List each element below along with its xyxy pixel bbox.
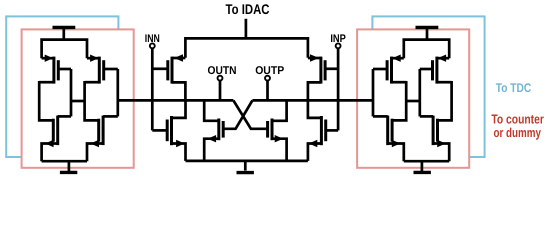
source fan rail right xyxy=(404,40,449,59)
ground stub right block xyxy=(421,161,424,171)
transistor T2 (PMOS right-top, mirrored) xyxy=(85,55,118,84)
VDD stub xyxy=(62,27,65,39)
transistor T4r (NMOS) xyxy=(373,116,404,162)
OUTN bus xyxy=(118,99,234,102)
red box (to counter) left xyxy=(22,29,134,167)
cross-coupled NMOS MN2 xyxy=(268,119,287,161)
INP terminal xyxy=(336,43,341,48)
transistor T1 (PMOS left-top, mirrored) xyxy=(39,55,71,84)
transistor T3 (NMOS left-bottom) xyxy=(42,116,71,162)
wire T2 drain to T4 gate xyxy=(85,81,99,120)
IDAC stub xyxy=(245,19,248,39)
VDD bar left block xyxy=(53,26,76,29)
OUTP stub xyxy=(266,81,269,100)
cross couple bridge wire xyxy=(71,100,85,103)
wire T1 drain to T3 gate xyxy=(39,81,53,120)
OUTN stub xyxy=(219,81,222,100)
top rail xyxy=(185,38,308,57)
INP PMOS M2 xyxy=(308,54,325,100)
OUTP terminal xyxy=(265,76,270,81)
INP gate wire xyxy=(337,49,340,131)
transistor T3r (NMOS) xyxy=(420,116,449,162)
transistor T4 (NMOS right-bottom) xyxy=(87,116,118,162)
tail bus left block xyxy=(42,160,87,163)
wire T2r gate / T4r drain vertical xyxy=(372,69,375,116)
INP NMOS M4 xyxy=(308,100,338,160)
VDD bar right block xyxy=(416,26,439,29)
transistor T2r (PMOS) xyxy=(373,55,406,84)
ground stub left block xyxy=(68,161,71,171)
ground bar right block xyxy=(414,171,431,174)
cross wire OUTP to MN1 gate xyxy=(223,100,252,128)
INN gate wire xyxy=(151,49,154,131)
tail bus right block xyxy=(404,160,449,163)
wire T1 gate / T3 drain vertical xyxy=(70,69,73,116)
svg-text:To IDAC: To IDAC xyxy=(226,1,270,17)
transistor T1r (PMOS) xyxy=(420,55,452,84)
INN terminal xyxy=(150,43,155,48)
wire T1r drain to T3r gate xyxy=(438,81,452,120)
INN PMOS M1 xyxy=(168,54,186,100)
svg-text:or dummy: or dummy xyxy=(493,125,541,140)
wire T2 gate / T4 drain vertical xyxy=(116,69,119,116)
source fan rail xyxy=(42,40,87,59)
VDD stub right xyxy=(426,27,429,39)
INN PMOS gate branch xyxy=(152,67,168,70)
cross wire OUTN to MN2 gate xyxy=(233,100,267,128)
OUTN terminal xyxy=(218,76,223,81)
svg-text:OUTN: OUTN xyxy=(208,65,237,77)
center ground bar xyxy=(237,171,254,174)
cross couple bridge wire right xyxy=(406,100,420,103)
MN1 drain wire xyxy=(204,100,219,120)
svg-text:OUTP: OUTP xyxy=(255,65,284,77)
svg-text:To TDC: To TDC xyxy=(496,81,532,95)
center ground stub xyxy=(244,161,247,171)
blue box (to TDC) left xyxy=(6,16,118,157)
OUTP bus xyxy=(252,99,373,102)
INP PMOS gate branch xyxy=(325,67,338,70)
wire T2r drain to T4r gate xyxy=(392,81,406,120)
ground bar left block xyxy=(60,171,77,174)
center tail bus xyxy=(186,160,308,163)
red box (to counter) right xyxy=(357,29,469,167)
INN NMOS M3 xyxy=(152,100,185,160)
wire T1r gate / T3r drain vertical xyxy=(418,69,421,116)
cross-coupled NMOS MN1 xyxy=(204,119,223,161)
MN2 drain wire xyxy=(272,100,287,120)
blue box (to TDC) right xyxy=(372,16,484,157)
